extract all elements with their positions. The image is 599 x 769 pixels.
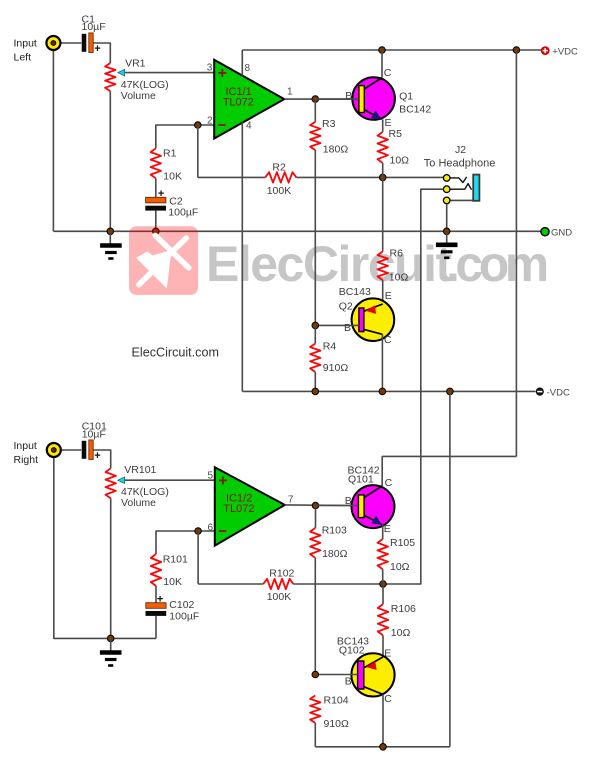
svg-text:6: 6 — [208, 523, 214, 534]
node: output junction to R103 — [312, 502, 319, 509]
svg-text:Q1: Q1 — [399, 90, 413, 102]
resistor R1 10K — [151, 148, 161, 178]
wire: right vertical rail from +VDC down to Q101 collector feed — [515, 50, 517, 456]
resistor R105 10ohm — [378, 539, 388, 569]
node: Q102 base junction — [312, 671, 319, 678]
svg-text:R5: R5 — [389, 128, 403, 140]
wire: Q1 emitter to R5 — [382, 119, 384, 131]
wire: R5 bottom to junction — [382, 163, 384, 177]
op-amp U1 IC1/1 TL072 — [214, 60, 284, 139]
op-amp U2 IC1/2 TL072 — [215, 467, 285, 545]
svg-text:VR1: VR1 — [125, 57, 146, 69]
terminal -VDC — [536, 388, 544, 396]
wire: input-left jack ground drop — [52, 50, 54, 231]
wire: R6 bottom to Q2 emitter — [382, 280, 384, 304]
node: J2 sleeve on GND rail — [443, 228, 450, 235]
transistor Q102 BC143 (PNP) — [351, 653, 394, 696]
wire: +VDC feed to Q101 collector — [382, 456, 516, 486]
wire: Q1 collector to +VDC rail — [381, 50, 383, 78]
node: pin6 junction — [195, 528, 202, 535]
svg-text:Right: Right — [14, 454, 39, 466]
svg-text:VR101: VR101 — [124, 464, 156, 476]
wire: input-right jack ground drop — [54, 457, 111, 638]
node: Q102 collector on bottom rail — [380, 744, 387, 751]
wire: op-amp pin 6 to R101 top corner — [156, 531, 215, 554]
svg-text:100µF: 100µF — [168, 206, 198, 218]
resistor R102 100K — [263, 579, 293, 589]
wire: VR101 bottom to ground wire — [110, 498, 112, 638]
svg-text:10µF: 10µF — [82, 428, 106, 440]
wire: pin2 junction down to R2 wire — [197, 125, 199, 177]
wire: R105 bottom to junction — [382, 569, 384, 584]
J2 ring contact — [450, 184, 472, 190]
wire: op-amp1 output to Q1 base — [284, 98, 352, 100]
wire: VR1 bottom to GND rail — [109, 91, 111, 231]
wire: pin 4 riser down to -VDC rail — [241, 122, 243, 392]
svg-text:Volume: Volume — [121, 497, 156, 509]
svg-text:E: E — [385, 290, 392, 302]
wire: pin6 junction down to R102 wire — [197, 531, 199, 584]
wire: J2 sleeve to GND rail — [446, 204, 448, 232]
svg-text:+VDC: +VDC — [552, 46, 578, 57]
svg-text:C: C — [384, 693, 392, 705]
svg-text:100K: 100K — [267, 185, 292, 197]
J2 plug body — [473, 175, 479, 201]
wire: R4 to -VDC rail — [314, 372, 316, 391]
svg-text:100µF: 100µF — [169, 611, 199, 623]
svg-text:10K: 10K — [163, 576, 182, 588]
potentiometer VR101 47K(LOG) — [106, 468, 116, 498]
wire: Q2 base — [315, 324, 359, 326]
svg-text:R105: R105 — [390, 537, 415, 549]
capacitor C1 10uF — [82, 33, 94, 53]
J2 sleeve wire — [450, 199, 473, 201]
svg-text:BC142: BC142 — [399, 103, 431, 115]
J2 terminal tip — [443, 175, 450, 182]
resistor R4 910ohm — [310, 344, 320, 373]
wire: R102 horizontal from pin6 drop — [198, 583, 263, 585]
svg-text:+: + — [158, 188, 164, 200]
node: R105/R106/R102 junction — [380, 581, 387, 588]
svg-text:Left: Left — [14, 51, 32, 63]
transistor Q101 BC142 (NPN) — [352, 485, 395, 528]
svg-text:R6: R6 — [390, 247, 404, 259]
logo icon X stroke NW-SE — [155, 235, 189, 267]
svg-text:B: B — [345, 495, 352, 507]
ground symbol left — [109, 231, 111, 244]
svg-text:180Ω: 180Ω — [323, 143, 349, 155]
svg-text:C: C — [385, 477, 393, 489]
input jack J-right — [47, 443, 61, 457]
svg-text:10K: 10K — [163, 171, 182, 183]
svg-text:10Ω: 10Ω — [390, 155, 410, 167]
wire: Q2 collector to -VDC rail — [381, 334, 383, 391]
svg-text:+: + — [94, 43, 100, 55]
resistor R6 10ohm — [382, 177, 384, 251]
node: output junction to R3 — [312, 96, 319, 103]
svg-text:J2: J2 — [455, 144, 466, 156]
svg-text:C: C — [384, 334, 392, 346]
wire: C101 to VR101 top corner — [93, 450, 111, 468]
svg-text:Volume: Volume — [121, 90, 156, 102]
node: drop to bottom rail on -VDC rail — [447, 388, 454, 395]
svg-text:2: 2 — [207, 116, 213, 127]
node: right rail on +VDC rail — [513, 47, 520, 54]
capacitor C102 100uF — [146, 603, 167, 616]
svg-text:C: C — [384, 67, 392, 79]
wire: +VDC top rail — [242, 49, 541, 51]
svg-text:Input: Input — [14, 440, 37, 452]
capacitor C2 100uF — [145, 197, 166, 210]
wire: op-amp pin 2 to R1 top corner, with junction — [156, 125, 214, 148]
node: C2 ground on GND rail — [153, 228, 160, 235]
node: VR101 ground junction — [107, 635, 114, 642]
svg-text:R4: R4 — [323, 341, 337, 353]
svg-text:C102: C102 — [169, 599, 194, 611]
svg-text:10µF: 10µF — [82, 21, 106, 33]
op-amp plus input mark — [218, 69, 226, 77]
wire: Q102 base — [315, 674, 357, 676]
input jack J-left — [46, 36, 60, 50]
ground symbol right channel — [110, 638, 112, 651]
wire: R103 bottom down to Q102 base junction — [314, 558, 316, 675]
svg-text:BC143: BC143 — [339, 286, 371, 298]
J2 terminal ring — [443, 186, 450, 193]
terminal GND — [541, 228, 549, 236]
wire: C102 to ground wire — [155, 616, 157, 639]
logo icon X stroke SW-NE — [139, 238, 186, 285]
resistor R104 910ohm — [310, 696, 320, 724]
svg-text:R103: R103 — [322, 525, 347, 537]
svg-text:910Ω: 910Ω — [323, 362, 349, 374]
wire: input-left jack to C1 — [61, 42, 82, 44]
svg-text:B: B — [345, 676, 352, 688]
wire: ground wire to C102 — [111, 637, 156, 639]
wire: R1 to C2 — [155, 178, 157, 197]
wire: Q101 emitter to R105 — [382, 525, 384, 539]
svg-text:E: E — [384, 523, 391, 535]
wire: Q1 base — [315, 98, 359, 100]
wire: bottom rail — [315, 746, 450, 748]
node: VR1 ground on GND rail — [107, 228, 114, 235]
svg-text:8: 8 — [245, 63, 251, 74]
wire: R101 to C102 — [155, 586, 157, 603]
wire: J2 ring line down to right channel output — [383, 189, 443, 584]
wire: C1 to VR1 top corner — [93, 43, 110, 63]
svg-text:E: E — [384, 648, 391, 660]
op-amp 2 plus input mark — [219, 476, 227, 484]
svg-text:TL072: TL072 — [223, 503, 254, 515]
wire: GND rail — [53, 230, 540, 232]
svg-text:B: B — [345, 90, 352, 102]
node: Q2 base junction — [312, 322, 319, 329]
wire: R3 bottom down to Q2 base junction — [314, 150, 316, 325]
svg-text:-VDC: -VDC — [547, 387, 570, 398]
svg-text:B: B — [344, 322, 351, 334]
svg-text:E: E — [385, 117, 392, 129]
transistor Q2 BC143 (PNP) — [352, 298, 395, 341]
ground symbol under J2 — [446, 231, 448, 243]
svg-text:Q2: Q2 — [339, 300, 353, 312]
wire: VR101 wiper to op-amp pin 5 — [125, 479, 215, 481]
wire: C2 to GND rail — [155, 211, 157, 232]
potentiometer VR1 47K(LOG) — [105, 63, 115, 91]
wire: R4 top from base junction — [314, 325, 316, 343]
wire: R102 to R105/R106 junction — [293, 583, 383, 585]
svg-text:R102: R102 — [269, 567, 294, 579]
node: R4 on -VDC rail — [312, 388, 319, 395]
svg-text:Input: Input — [14, 38, 37, 50]
wire: pin 8 riser to +VDC rail — [241, 50, 243, 76]
svg-text:10Ω: 10Ω — [391, 627, 411, 639]
svg-text:7: 7 — [288, 495, 294, 506]
wire: R2 horizontal from pin2 drop to headphone tip — [198, 176, 265, 178]
svg-text:GND: GND — [551, 227, 572, 238]
node: pin2 junction — [195, 122, 202, 129]
logo watermark square — [129, 226, 198, 295]
terminal +VDC — [541, 47, 549, 55]
resistor R2 100K — [265, 172, 296, 182]
wire: Q102 collector to bottom rail — [382, 694, 384, 746]
transistor Q1 BC142 (NPN) — [352, 77, 395, 120]
VR1 wiper arrow — [118, 69, 125, 76]
svg-text:Q102: Q102 — [339, 645, 365, 657]
svg-text:180Ω: 180Ω — [322, 548, 348, 560]
op-amp 2 minus input mark — [219, 530, 226, 532]
op-amp minus input mark — [218, 124, 225, 126]
J2 terminal sleeve — [443, 197, 450, 204]
svg-text:910Ω: 910Ω — [324, 718, 350, 730]
node: R5/R6/R2 junction — [379, 174, 386, 181]
wire: VR1 wiper to op-amp pin 3 — [125, 72, 215, 74]
svg-text:100K: 100K — [267, 591, 292, 603]
svg-text:10Ω: 10Ω — [390, 561, 410, 573]
wire: -VDC rail drop to bottom rail — [449, 391, 451, 746]
svg-text:+: + — [94, 450, 100, 462]
svg-text:4: 4 — [246, 121, 252, 132]
wire: -VDC rail — [242, 390, 535, 392]
resistor R101 10K — [151, 554, 161, 586]
wire: Q101 base — [316, 505, 359, 507]
svg-text:ElecCircuit.com: ElecCircuit.com — [132, 345, 219, 359]
wire: R103 top from output junction — [315, 506, 317, 528]
svg-text:3: 3 — [207, 63, 213, 74]
resistor R106 10ohm — [382, 584, 384, 604]
svg-text:R1: R1 — [163, 147, 177, 159]
resistor R3 180ohm — [314, 99, 316, 122]
J2 tip contact — [450, 177, 467, 183]
svg-text:To Headphone: To Headphone — [424, 158, 496, 170]
node: Q2 collector on -VDC rail — [379, 388, 386, 395]
wire: R2 to R5/R6 junction and jack tip — [296, 176, 443, 178]
wire: R104 to bottom rail — [314, 723, 316, 747]
svg-text:5: 5 — [208, 471, 214, 482]
svg-text:10Ω: 10Ω — [389, 271, 409, 283]
svg-text:TL072: TL072 — [223, 96, 254, 108]
svg-text:R106: R106 — [391, 603, 416, 615]
svg-text:R101: R101 — [163, 554, 188, 566]
VR101 wiper arrow — [118, 477, 125, 484]
node: Q1 collector on +VDC rail — [379, 47, 386, 54]
wire: R106 bottom to Q102 emitter — [382, 635, 384, 657]
svg-text:+: + — [157, 594, 163, 606]
svg-text:.com: .com — [446, 236, 547, 292]
logo icon arrow — [136, 250, 172, 289]
wire: op-amp2 output to Q101 base — [285, 504, 352, 507]
svg-text:R104: R104 — [324, 695, 349, 707]
resistor R5 10ohm — [378, 132, 388, 163]
svg-text:R2: R2 — [272, 161, 286, 173]
resistor R103 180ohm — [310, 528, 320, 558]
svg-text:Q101: Q101 — [348, 474, 374, 486]
wire: input-right jack to C101 — [61, 449, 81, 451]
svg-text:R3: R3 — [322, 118, 336, 130]
capacitor C101 10uF — [82, 440, 94, 460]
svg-text:1: 1 — [287, 86, 293, 97]
